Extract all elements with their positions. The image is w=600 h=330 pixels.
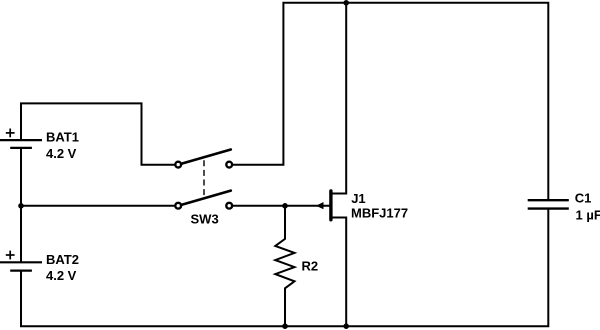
svg-text:SW3: SW3	[191, 211, 219, 226]
svg-text:1 µF: 1 µF	[576, 208, 600, 223]
svg-text:BAT1: BAT1	[46, 130, 79, 145]
svg-text:BAT2: BAT2	[46, 252, 79, 267]
svg-text:4.2 V: 4.2 V	[46, 146, 77, 161]
svg-text:4.2 V: 4.2 V	[46, 268, 77, 283]
svg-text:MBFJ177: MBFJ177	[351, 206, 408, 221]
svg-text:C1: C1	[575, 191, 592, 206]
svg-text:J1: J1	[351, 191, 365, 206]
svg-text:R2: R2	[302, 258, 319, 273]
